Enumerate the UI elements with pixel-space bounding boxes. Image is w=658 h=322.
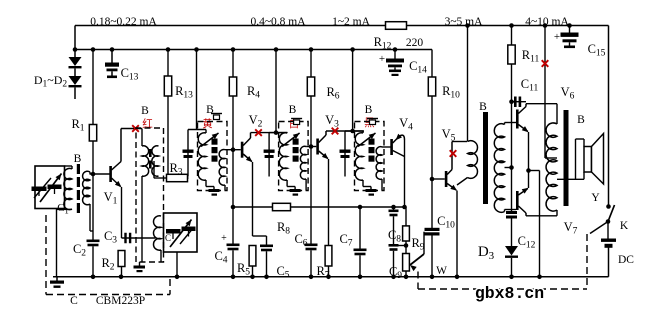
wire: tap to R3 bbox=[158, 176, 160, 179]
core marks bbox=[293, 139, 299, 145]
wire bbox=[92, 141, 94, 240]
V1 collector bbox=[112, 162, 122, 171]
B4 secondary winding bbox=[300, 146, 306, 179]
test point mark bbox=[542, 60, 549, 67]
wire: secondary top to V6 base bbox=[504, 123, 506, 125]
wire: center tap bbox=[505, 167, 512, 169]
junction bbox=[430, 275, 435, 280]
transformer B1 antenna coil primary bbox=[64, 168, 72, 209]
svg-text:3~5 mA: 3~5 mA bbox=[445, 16, 484, 28]
resistor R11 bbox=[508, 45, 515, 64]
wire bbox=[457, 178, 468, 186]
capacitor C12 bbox=[506, 211, 517, 214]
junction bbox=[393, 47, 398, 52]
junction bbox=[309, 144, 314, 149]
wire bbox=[252, 266, 254, 277]
wire: C7 branch bbox=[359, 207, 361, 249]
wire: primary top bbox=[188, 129, 206, 131]
junction bbox=[166, 47, 171, 52]
transformer B1 secondary bbox=[83, 171, 90, 205]
wire: left drop from top rail to bias rail bbox=[74, 26, 76, 50]
wire: AGC feedback line bbox=[233, 206, 273, 208]
wire bbox=[232, 96, 234, 244]
wire bbox=[405, 207, 407, 226]
wire: V3 collector to B5 bbox=[326, 130, 364, 132]
wire bbox=[328, 266, 330, 277]
junction bbox=[231, 47, 236, 52]
B3 secondary winding bbox=[219, 150, 225, 186]
capacitor C7 bbox=[354, 249, 367, 252]
svg-text:CBM223P: CBM223P bbox=[96, 295, 145, 307]
junction bbox=[350, 129, 355, 134]
wire: feed from bias rail bbox=[196, 50, 198, 130]
junction bbox=[358, 275, 363, 280]
capacitor C13 bbox=[105, 63, 119, 67]
wire: secondary to base bbox=[306, 146, 311, 148]
V6 collector bbox=[518, 107, 526, 114]
wire: collector rail to output primary top bbox=[526, 103, 557, 105]
junction bbox=[391, 205, 396, 210]
junction bbox=[509, 23, 514, 28]
wire: supply tap column bbox=[544, 26, 546, 159]
diode D2 bbox=[69, 76, 82, 85]
wire: secondary to base bbox=[225, 149, 233, 151]
transformer B6 core bbox=[483, 112, 488, 204]
junction bbox=[274, 47, 279, 52]
svg-text:C: C bbox=[70, 295, 78, 307]
transistor V1 bbox=[109, 166, 112, 182]
wire bbox=[511, 258, 513, 277]
core adjust symbol bbox=[291, 118, 302, 120]
svg-text:B: B bbox=[577, 114, 585, 126]
core marks bbox=[149, 149, 152, 157]
wire: V2 collector to B4 bbox=[251, 132, 288, 134]
diode D1 bbox=[69, 57, 82, 66]
B5 secondary winding bbox=[376, 147, 382, 180]
capacitor C9 bbox=[389, 244, 399, 247]
ferrite core bbox=[77, 164, 80, 174]
capacitor C10 bbox=[425, 228, 440, 231]
transistor V3 bbox=[316, 139, 319, 155]
V6 emitter bbox=[518, 125, 527, 132]
wire: to driver primary bbox=[452, 141, 467, 143]
V5 emitter bbox=[447, 184, 456, 191]
junction bbox=[465, 23, 470, 28]
svg-text:K: K bbox=[620, 220, 629, 232]
tuning arrow bbox=[282, 133, 300, 147]
transformer B5 box bbox=[355, 122, 385, 191]
wire bbox=[511, 219, 513, 247]
wire bbox=[393, 216, 395, 244]
variable capacitor section bbox=[32, 187, 47, 192]
junction bbox=[73, 47, 78, 52]
svg-text:B: B bbox=[74, 153, 82, 165]
wire bbox=[608, 248, 610, 277]
svg-text:W: W bbox=[436, 265, 447, 277]
variable capacitor (osc tuning gang) box bbox=[164, 213, 198, 252]
resistor R7 bbox=[325, 246, 332, 267]
svg-text:B: B bbox=[289, 104, 297, 116]
speaker Y bbox=[575, 139, 577, 179]
svg-text:黄: 黄 bbox=[202, 117, 213, 130]
wire bbox=[167, 96, 169, 174]
junction bbox=[91, 47, 96, 52]
junction bbox=[91, 275, 96, 280]
wire: primary bottom / ground bbox=[205, 180, 207, 187]
svg-text:4~10 mA: 4~10 mA bbox=[525, 16, 569, 28]
wire: battery to ground rail corner bbox=[608, 247, 610, 277]
resistor R12 bbox=[386, 22, 407, 30]
test point mark bbox=[255, 129, 262, 136]
B2 winding 3 (osc) bbox=[153, 216, 161, 250]
resistor R4 bbox=[229, 77, 236, 96]
capacitor C11 bbox=[512, 101, 527, 103]
junction bbox=[119, 275, 124, 280]
wire bbox=[431, 235, 433, 277]
B2 winding 2 bbox=[152, 146, 159, 176]
capacitor C4 bbox=[227, 244, 240, 247]
core adjust symbol bbox=[367, 118, 378, 120]
transistor V2 bbox=[241, 142, 244, 158]
wire bbox=[405, 271, 407, 277]
junction bbox=[358, 205, 363, 210]
transformer B4 box bbox=[279, 122, 309, 191]
wire: C8/C9 branch bbox=[393, 207, 395, 210]
wire bbox=[310, 250, 312, 276]
resistor R2 bbox=[118, 251, 125, 267]
resistor R13 bbox=[164, 76, 171, 96]
wire: secondary bottom to V7 base bbox=[504, 210, 506, 212]
junction bbox=[274, 130, 279, 135]
tuning arrows bbox=[170, 220, 192, 248]
wire: secondary bottom bbox=[381, 179, 383, 191]
junction bbox=[543, 23, 548, 28]
wire: base wire to V3 bbox=[311, 146, 316, 148]
test point mark bbox=[332, 128, 339, 135]
resistor W bbox=[403, 254, 410, 272]
wire bbox=[121, 267, 123, 277]
svg-text:Y: Y bbox=[591, 192, 600, 204]
B3 primary winding bbox=[198, 133, 206, 180]
wire: primary bottom / ground bbox=[362, 180, 364, 187]
capacitor C14 bbox=[386, 59, 404, 63]
svg-text:DC: DC bbox=[618, 254, 634, 266]
wire: gang to ground rail bbox=[176, 252, 178, 277]
junction bbox=[264, 275, 269, 280]
junction bbox=[326, 275, 331, 280]
junction bbox=[231, 147, 236, 152]
wire bbox=[266, 251, 268, 276]
transformer B6 secondary bbox=[494, 124, 504, 213]
wire bbox=[74, 69, 76, 77]
svg-text:1~2 mA: 1~2 mA bbox=[332, 16, 371, 28]
svg-text:+: + bbox=[379, 53, 385, 65]
V2 collector bbox=[243, 138, 250, 146]
switch K bbox=[606, 204, 611, 209]
core adjust symbol B3 bbox=[211, 113, 222, 115]
wire: feed from bias rail bbox=[275, 50, 277, 133]
wire: secondary bottom bbox=[224, 185, 226, 191]
V5 collector bbox=[447, 170, 452, 175]
wire bbox=[74, 88, 76, 100]
svg-text:220: 220 bbox=[406, 37, 424, 49]
junction bbox=[194, 47, 199, 52]
capacitor C2 bbox=[87, 240, 100, 243]
svg-text:0.4~0.8 mA: 0.4~0.8 mA bbox=[250, 16, 306, 28]
wire bbox=[359, 255, 361, 276]
svg-text:C: C bbox=[165, 233, 171, 243]
wire: to output primary bottom bbox=[526, 215, 557, 217]
wire: base wire through to V2 bbox=[233, 149, 241, 151]
resistor R8 bbox=[273, 203, 291, 210]
wire: second (bias) rail bbox=[75, 49, 432, 51]
wire: primary top bbox=[269, 132, 287, 134]
wire: top rail to driver primary bbox=[467, 26, 469, 142]
wire: R11 column bbox=[511, 26, 513, 46]
junction bbox=[509, 99, 514, 104]
wire bbox=[160, 250, 162, 262]
wire: V1 collector to B2 bbox=[121, 128, 142, 130]
V2 emitter bbox=[243, 154, 252, 162]
resistor R3 bbox=[167, 174, 188, 181]
wire bbox=[405, 241, 407, 254]
V3 collector bbox=[319, 135, 326, 143]
junction bbox=[110, 47, 115, 52]
capacitor C6 bbox=[305, 244, 318, 247]
capacitor C5 bbox=[266, 236, 268, 245]
wire: V4 to detector load bbox=[404, 140, 406, 207]
wire: secondary to base bbox=[382, 146, 391, 148]
B5 primary winding bbox=[355, 133, 363, 180]
junction bbox=[175, 275, 180, 280]
wire: primary top bbox=[345, 130, 363, 132]
wire: center tap bbox=[545, 157, 557, 159]
wire: C14 branch bbox=[394, 50, 396, 59]
wire: V5 base bbox=[432, 178, 445, 180]
transistor V4 bbox=[390, 139, 393, 155]
wire: secondary to V1 base bbox=[89, 172, 91, 174]
variable capacitor section bbox=[166, 229, 181, 234]
variable capacitor C1 (tuning gang) box bbox=[35, 166, 65, 209]
transformer B7 primary bbox=[556, 104, 558, 124]
junction bbox=[309, 47, 314, 52]
V4 collector lead bbox=[393, 136, 400, 143]
wire: C15 branch bbox=[569, 26, 571, 33]
wire: secondary bottom to AGC node bbox=[89, 204, 91, 231]
B4 primary winding bbox=[279, 133, 287, 180]
junction bbox=[455, 275, 460, 280]
test point mark bbox=[450, 150, 457, 157]
ground (B2) bbox=[139, 262, 141, 266]
wire: coil bottom to ground bbox=[57, 208, 73, 210]
wire: R3 right to bracket bbox=[188, 177, 189, 179]
wire: switch to board (dashed link) bbox=[590, 222, 608, 234]
wire: top supply rail bbox=[75, 25, 386, 27]
variable capacitor section bbox=[48, 185, 62, 190]
wire bbox=[310, 96, 312, 244]
V3 emitter bbox=[319, 151, 328, 159]
B2 winding 1 bbox=[141, 129, 143, 147]
core marks bbox=[212, 139, 218, 145]
tuning arrow bbox=[201, 133, 219, 147]
capacitor C8 bbox=[389, 210, 399, 213]
bracket / tuning cap of B3 bbox=[187, 130, 189, 177]
wire: primary bottom / ground bbox=[286, 180, 288, 187]
resistor R9 bbox=[403, 226, 410, 241]
svg-text:B: B bbox=[479, 101, 487, 113]
svg-text:+: + bbox=[554, 31, 560, 43]
wire bbox=[431, 96, 433, 228]
resistor R10 bbox=[428, 77, 435, 96]
capacitor C5 bbox=[260, 245, 273, 248]
resistor R1 bbox=[89, 125, 96, 142]
wire: R10 column bbox=[431, 50, 433, 78]
junction bbox=[509, 275, 514, 280]
wire: emitter bracket bbox=[253, 235, 267, 237]
wire: C1 to coil bbox=[65, 165, 73, 167]
wire: R1 column bbox=[92, 50, 94, 125]
wire bbox=[511, 64, 513, 211]
wire: right supply drop bbox=[608, 26, 610, 207]
wire bbox=[393, 251, 395, 277]
V1 emitter bbox=[112, 178, 121, 187]
junction bbox=[350, 47, 355, 52]
wire: R13 column bbox=[167, 50, 169, 77]
junction bbox=[309, 275, 314, 280]
svg-text:0.18~0.22 mA: 0.18~0.22 mA bbox=[90, 16, 157, 28]
transistor V6 bbox=[516, 110, 519, 129]
wire: R3 left bbox=[154, 177, 167, 179]
svg-text:B: B bbox=[365, 104, 373, 116]
junction bbox=[526, 168, 531, 173]
battery DC bbox=[601, 239, 616, 242]
ground (left end of ground rail) bbox=[56, 277, 58, 281]
capacitor C15 bbox=[561, 33, 579, 37]
wire: wiper tap bbox=[394, 245, 407, 247]
wire: emitters to bias/ground column bbox=[529, 170, 540, 172]
transistor V7 bbox=[516, 191, 519, 210]
wire: D1-D2 branch bbox=[74, 50, 76, 58]
junction bbox=[430, 177, 435, 182]
junction bbox=[231, 275, 236, 280]
bracket / tuning cap of B5 bbox=[344, 131, 346, 177]
tuning arrows bbox=[40, 174, 62, 203]
junction bbox=[537, 275, 542, 280]
variable capacitor section bbox=[182, 227, 196, 232]
wire: winding1 return bbox=[141, 176, 143, 262]
dashed battery box bbox=[586, 234, 588, 289]
wire bbox=[92, 246, 94, 276]
wire bbox=[607, 222, 609, 239]
wire: secondary bottom bbox=[305, 179, 307, 191]
wire: C13 branch bbox=[111, 50, 113, 63]
transformer B3 box bbox=[198, 122, 228, 191]
bracket / tuning cap of B4 bbox=[268, 133, 270, 177]
junction bbox=[567, 23, 572, 28]
wire: ground rail bbox=[53, 276, 609, 278]
transformer B6 primary bbox=[468, 141, 478, 179]
transformer B7 core bbox=[564, 110, 569, 206]
junction bbox=[509, 165, 514, 170]
wire: feed from bias rail bbox=[352, 50, 354, 132]
junction bbox=[391, 275, 396, 280]
diode D3 bbox=[505, 246, 518, 256]
wire: link bbox=[394, 245, 407, 247]
dashed IC outline CBM223P bbox=[45, 215, 47, 295]
resistor R5 bbox=[249, 246, 256, 267]
svg-text:+: + bbox=[221, 233, 227, 244]
wire bbox=[291, 206, 405, 208]
capacitor C3 bbox=[124, 233, 126, 244]
wire: R6 column bbox=[310, 50, 312, 78]
junction bbox=[404, 275, 409, 280]
junction bbox=[402, 205, 407, 210]
transistor V5 bbox=[445, 171, 448, 187]
junction bbox=[404, 243, 409, 248]
wire: wiper to C10 bbox=[423, 232, 425, 254]
V4 emitter bbox=[393, 151, 405, 157]
svg-text:gbx8.cn: gbx8.cn bbox=[475, 284, 544, 303]
junction bbox=[250, 275, 255, 280]
transformer B2 oscillator coil box bbox=[136, 128, 164, 262]
tuning arrow bbox=[358, 133, 376, 147]
svg-text:B: B bbox=[141, 105, 149, 117]
wire: C3 node to osc tank bbox=[122, 237, 156, 239]
wire: R4 column bbox=[232, 50, 234, 78]
resistor R6 bbox=[307, 77, 314, 96]
wire: secondary to speaker bbox=[557, 178, 584, 180]
resistor R5 bbox=[252, 236, 254, 246]
core marks bbox=[369, 139, 375, 145]
wire bbox=[232, 250, 234, 276]
V7 collector bbox=[518, 206, 526, 213]
V7 emitter bbox=[518, 189, 527, 196]
junction bbox=[231, 205, 236, 210]
test point mark bbox=[132, 125, 139, 132]
junction bbox=[91, 172, 96, 177]
